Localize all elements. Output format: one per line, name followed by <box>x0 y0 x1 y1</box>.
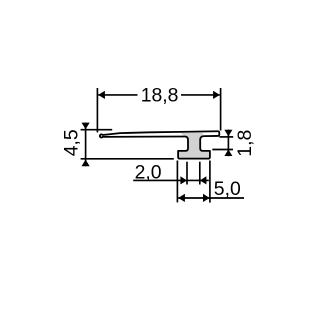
svg-text:18,8: 18,8 <box>141 84 179 106</box>
dim 4,5 extension lower <box>81 158 174 160</box>
dim 18,8 line left <box>98 94 137 96</box>
dim 4,5 extension upper <box>81 129 113 131</box>
dim 18,8 arrow right <box>213 91 220 99</box>
svg-text:5,0: 5,0 <box>214 178 241 200</box>
dim 1,8 line <box>227 130 229 157</box>
dim 5,0 arrow right <box>203 194 210 202</box>
dim 2,0 line <box>133 179 209 181</box>
dim 2,0 arrow right <box>200 176 207 184</box>
svg-text:4,5: 4,5 <box>60 129 82 156</box>
dim 4,5 arrow lower <box>82 160 90 167</box>
dim 18,8 extension right <box>220 88 222 131</box>
dim 4,5 line <box>85 123 87 167</box>
svg-text:1,8: 1,8 <box>234 130 256 157</box>
dim 18,8 arrow left <box>98 91 105 99</box>
dim 18,8 line right <box>181 94 220 96</box>
dim 1,8 arrow upper <box>224 130 232 137</box>
dim 5,0 extension right <box>209 161 211 203</box>
dim 1,8 extension upper <box>219 136 233 138</box>
dim 1,8 extension lower <box>212 149 233 151</box>
dim 5,0 arrow left <box>178 194 185 202</box>
dim 5,0 line <box>178 197 244 199</box>
svg-text:2,0: 2,0 <box>135 162 162 184</box>
profile outline <box>100 131 219 158</box>
dim 4,5 arrow upper <box>82 123 90 130</box>
dim 18,8 extension left <box>96 88 98 132</box>
dim 2,0 arrow left <box>180 176 187 184</box>
dim 1,8 arrow lower <box>224 149 232 156</box>
profile body fill (white flange) <box>100 131 219 158</box>
dim 5,0 extension left <box>176 161 178 203</box>
web and foot gray fill <box>178 133 210 159</box>
dim 2,0 extension left <box>186 162 188 185</box>
dim 2,0 extension right <box>199 162 201 185</box>
